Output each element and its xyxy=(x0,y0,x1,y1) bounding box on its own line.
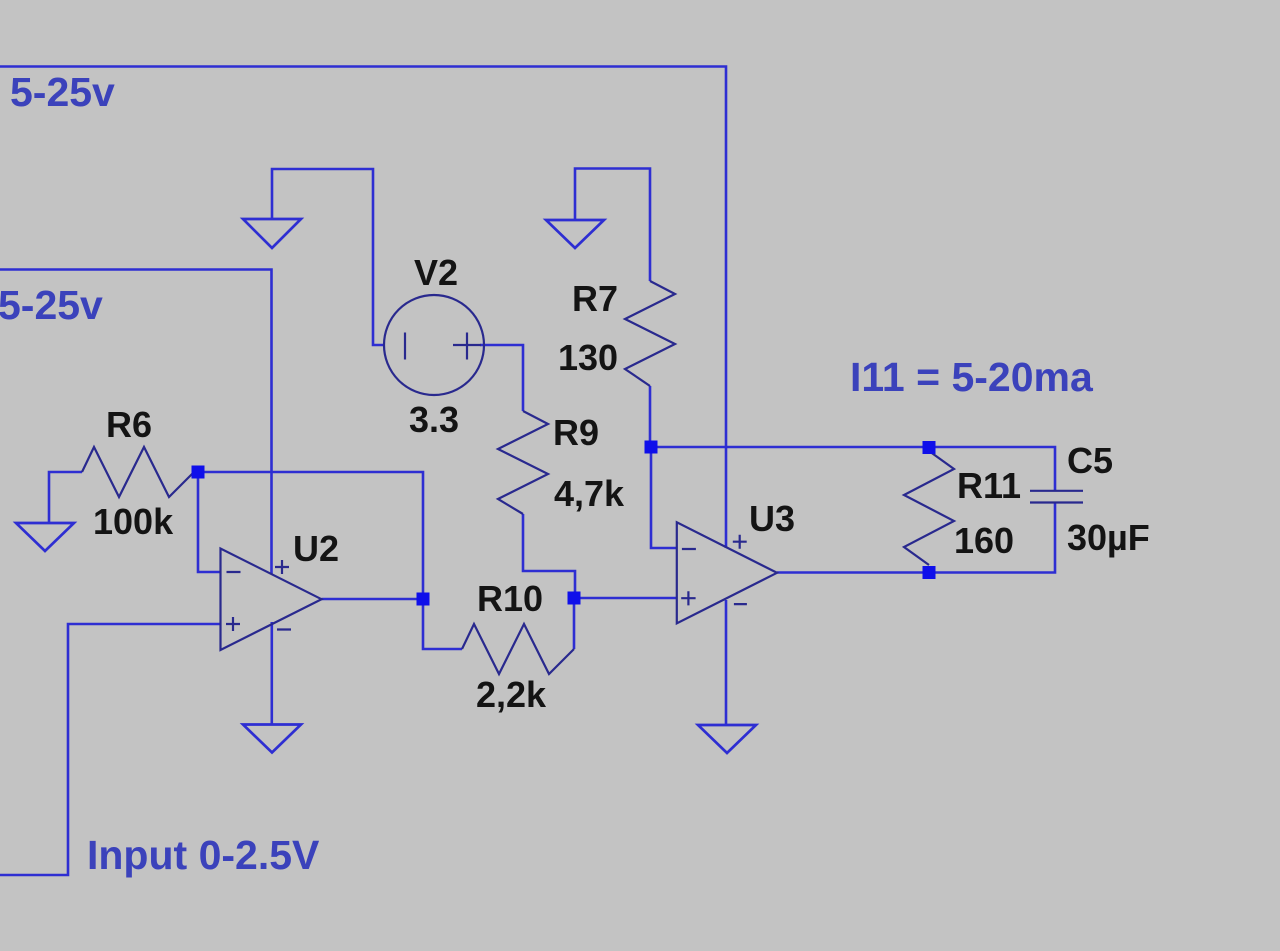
resistor R6 xyxy=(82,447,194,497)
node junction R10 right xyxy=(568,592,581,605)
wire R6 node feedback down to R10 left xyxy=(194,472,462,649)
node junction R6/feedback xyxy=(192,466,205,479)
svg-text:C5: C5 xyxy=(1067,440,1113,481)
svg-text:R9: R9 xyxy=(553,412,599,453)
wire R7 node to C5 top xyxy=(651,447,1055,490)
svg-text:R7: R7 xyxy=(572,278,618,319)
op-amp U3 xyxy=(677,522,777,623)
wire ground hook to V2 minus xyxy=(272,169,385,345)
svg-text:2,2k: 2,2k xyxy=(476,674,547,715)
node junction U2 output xyxy=(417,593,430,606)
wire R7 top to ground hook xyxy=(575,169,650,282)
wire U3 V- to ground xyxy=(725,600,728,725)
resistor R9 xyxy=(498,411,548,514)
svg-text:30µF: 30µF xyxy=(1067,517,1150,558)
svg-text:U2: U2 xyxy=(293,528,339,569)
svg-text:3.3: 3.3 xyxy=(409,399,459,440)
wire R7 node to U3 inverting input xyxy=(651,447,677,548)
ground U2 xyxy=(243,725,301,753)
ground U3 xyxy=(698,725,756,753)
wire V2 plus to R9 top xyxy=(480,345,523,411)
svg-text:V2: V2 xyxy=(414,252,458,293)
svg-text:130: 130 xyxy=(558,337,618,378)
wire R9 bottom to R10 right node xyxy=(523,514,575,596)
svg-text:100k: 100k xyxy=(93,501,174,542)
node junction R7 bottom xyxy=(645,441,658,454)
svg-text:Input 0-2.5V: Input 0-2.5V xyxy=(87,832,320,878)
wire U3 output to C5 bottom xyxy=(777,503,1055,573)
svg-text:I11 = 5-20ma: I11 = 5-20ma xyxy=(850,354,1094,400)
svg-text:5-25v: 5-25v xyxy=(0,282,103,328)
resistor R10 xyxy=(462,624,574,674)
capacitor C5 xyxy=(1030,491,1083,503)
resistor R7 xyxy=(625,281,675,386)
op-amp U2 xyxy=(221,549,322,651)
wire second 5-25v rail to U2 V+ xyxy=(0,270,272,575)
svg-text:R11: R11 xyxy=(957,465,1021,506)
wire R10 right to U3 non-inverting input xyxy=(574,598,677,649)
resistor R11 xyxy=(904,451,954,565)
svg-text:U3: U3 xyxy=(749,498,795,539)
wire top 5-25v rail to U3 V+ xyxy=(0,67,726,549)
svg-text:5-25v: 5-25v xyxy=(10,69,115,115)
wire U2 V- to ground xyxy=(270,622,273,724)
ground R7 xyxy=(546,220,604,248)
wire input net to U2 non-inverting input xyxy=(0,624,221,875)
ground top left xyxy=(243,219,301,248)
node junction R11 top xyxy=(923,441,936,454)
wire node A to U2 inverting input xyxy=(198,472,221,572)
wire R7 bottom lead xyxy=(649,386,652,447)
svg-text:R6: R6 xyxy=(106,404,152,445)
voltage source V2 xyxy=(384,295,484,395)
svg-text:R10: R10 xyxy=(477,578,543,619)
svg-text:160: 160 xyxy=(954,520,1014,561)
ground R6 xyxy=(16,523,74,551)
wire U2 output xyxy=(322,598,424,601)
svg-text:4,7k: 4,7k xyxy=(554,473,625,514)
node junction R11 bottom xyxy=(923,566,936,579)
wire R6 left lead to ground xyxy=(49,472,82,523)
